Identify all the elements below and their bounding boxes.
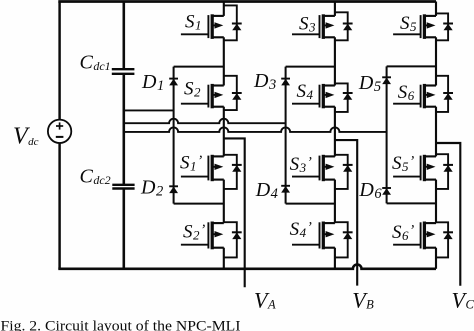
wire: B-leg S-upper source to S-second drain bbox=[334, 37, 336, 85]
svg-text:D1: D1 bbox=[141, 71, 164, 94]
wire: positive DC top rail bbox=[58, 0, 436, 3]
wire: D4 anode to lower junction of phase B bbox=[286, 203, 335, 205]
diode D5 (clamp) bbox=[382, 77, 391, 84]
svg-text:S5: S5 bbox=[400, 13, 417, 34]
svg-text:Cdc2: Cdc2 bbox=[80, 166, 111, 188]
wire: left rail upper segment (Vdc + to top rail) bbox=[58, 2, 60, 120]
wire: D5 cathode to upper junction of phase C bbox=[387, 65, 436, 67]
transistor switch S4' (IGBT with antiparallel diode) bbox=[292, 222, 353, 258]
transistor switch S1' (IGBT with antiparallel diode) bbox=[181, 155, 242, 189]
transistor switch S2 (IGBT with antiparallel diode) bbox=[181, 76, 242, 110]
svg-text:D4: D4 bbox=[255, 179, 278, 202]
capacitor Cdc1 bbox=[112, 69, 135, 74]
wire: neutral tie to phase-A clamp chain bbox=[123, 109, 174, 111]
wire: B-leg S-third source to S-fourth drain bbox=[334, 180, 336, 224]
svg-text:D5: D5 bbox=[358, 72, 381, 95]
svg-text:D6: D6 bbox=[358, 179, 382, 202]
wire: phase C output tap to terminal VC bbox=[436, 143, 460, 286]
transistor switch S2' (IGBT with antiparallel diode) bbox=[181, 222, 242, 258]
wire: capacitor chain rail top segment bbox=[123, 2, 126, 70]
svg-text:Fig. 2. Circuit layout of the: Fig. 2. Circuit layout of the NPC-MLI bbox=[1, 318, 241, 331]
wire: D1 cathode to upper junction of phase A bbox=[174, 66, 224, 68]
svg-text:S2: S2 bbox=[184, 79, 201, 100]
transistor switch S4 (IGBT with antiparallel diode) bbox=[292, 83, 353, 112]
svg-text:Vdc: Vdc bbox=[13, 124, 39, 150]
wire: clamp chain vertical of phase B bbox=[285, 67, 287, 204]
transistor switch S3' (IGBT with antiparallel diode) bbox=[292, 155, 353, 189]
wire: C-leg S-fourth source to bottom rail bbox=[435, 248, 437, 269]
svg-text:S4: S4 bbox=[297, 81, 314, 102]
svg-text:VC: VC bbox=[452, 287, 474, 312]
svg-text:D3: D3 bbox=[253, 70, 276, 93]
wire: capacitor chain rail middle segment bbox=[123, 74, 126, 184]
wire: B-leg S-second source through buses to S-third drain bbox=[334, 107, 336, 157]
wire: top rail to B-leg upper switch drain bbox=[334, 2, 336, 16]
svg-text:D2: D2 bbox=[140, 176, 163, 199]
wire: phase B output tap to terminal VB bbox=[335, 140, 357, 286]
wire: C-leg S-third source to S-fourth drain bbox=[435, 180, 437, 224]
diode D6 (clamp) bbox=[382, 188, 391, 195]
wire: top rail to C-leg upper switch drain bbox=[435, 2, 437, 16]
wire: negative DC bottom rail (hops over phase-B output) bbox=[58, 264, 436, 268]
svg-text:VA: VA bbox=[254, 287, 276, 312]
wire: neutral tie to phase-B clamp chain (hops over two phase-A verticals) bbox=[123, 119, 286, 124]
wire: D3 cathode to upper junction of phase B bbox=[286, 66, 335, 68]
transistor switch S5' (IGBT with antiparallel diode) bbox=[393, 154, 453, 189]
wire: neutral tie to phase-C clamp chain (hops over four verticals) bbox=[123, 127, 387, 132]
transistor switch S3 (IGBT with antiparallel diode) bbox=[292, 12, 353, 40]
wire: A-leg S-third source to S-fourth drain bbox=[223, 180, 225, 224]
wire: B-leg S-fourth source to bottom rail bbox=[334, 248, 336, 269]
diode D2 (clamp) bbox=[169, 186, 178, 193]
wire: A-leg S-upper source to S-second drain bbox=[223, 37, 225, 85]
svg-text:S4’: S4’ bbox=[290, 219, 312, 240]
diode D3 (clamp) bbox=[281, 79, 290, 86]
wire: C-leg S-upper source to S-second drain bbox=[435, 37, 437, 85]
wire: left rail lower segment (Vdc - to bottom rail) bbox=[58, 143, 60, 269]
wire: phase A output tap to terminal VA bbox=[224, 138, 245, 287]
capacitor Cdc2 bbox=[112, 185, 134, 189]
wire: D6 anode to lower junction of phase C bbox=[387, 202, 436, 204]
transistor switch S6' (IGBT with antiparallel diode) bbox=[393, 222, 453, 258]
svg-text:S1: S1 bbox=[185, 12, 202, 33]
svg-text:Cdc1: Cdc1 bbox=[80, 52, 111, 74]
svg-text:S2’: S2’ bbox=[183, 221, 205, 242]
wire: clamp chain vertical of phase A bbox=[173, 67, 175, 204]
wire: clamp chain vertical of phase C bbox=[386, 66, 388, 203]
transistor switch S1 (IGBT with antiparallel diode) bbox=[181, 5, 242, 40]
svg-text:S1’: S1’ bbox=[180, 153, 202, 174]
wire: C-leg S-second source through buses to S-third drain bbox=[435, 107, 437, 157]
diode D4 (clamp) bbox=[281, 186, 290, 193]
svg-text:S6’: S6’ bbox=[392, 222, 414, 243]
voltage source Vdc bbox=[48, 120, 71, 143]
svg-text:S3’: S3’ bbox=[290, 154, 312, 175]
wire: D2 anode to lower junction of phase A bbox=[174, 203, 224, 205]
wire: capacitor chain rail bottom segment bbox=[123, 189, 126, 269]
wire: top rail to A-leg upper switch drain bbox=[223, 2, 225, 16]
svg-text:S6: S6 bbox=[398, 82, 415, 103]
wire: A-leg S-second source through buses to S-third drain bbox=[223, 107, 225, 157]
svg-text:VB: VB bbox=[352, 288, 374, 313]
wire: A-leg S-fourth source to bottom rail bbox=[223, 248, 225, 269]
diode D1 (clamp) bbox=[169, 79, 178, 86]
transistor switch S6 (IGBT with antiparallel diode) bbox=[393, 76, 453, 112]
transistor switch S5 (IGBT with antiparallel diode) bbox=[393, 13, 453, 40]
svg-text:S3: S3 bbox=[299, 13, 316, 34]
svg-text:S5’: S5’ bbox=[392, 153, 414, 174]
